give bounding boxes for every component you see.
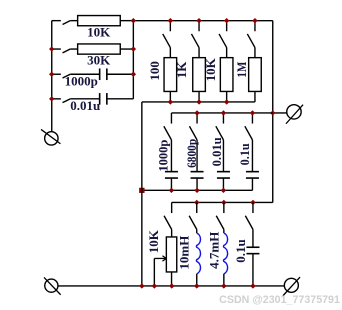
terminal T4 (lower right) [284,278,298,292]
svg-text:1M: 1M [234,62,249,78]
svg-text:4.7mH: 4.7mH [207,232,222,269]
resistor 10K (vertical) [226,48,228,58]
inductor 4.7mH [223,229,225,233]
junction dot top bus col4 [252,18,257,23]
capacitor 1000p (vertical) [170,140,172,172]
junction dot top bus col1 [168,18,173,23]
junction dot cap top bus col2 [194,110,199,115]
svg-text:10K: 10K [203,57,218,81]
wire: bottom bus [58,285,284,287]
svg-text:1000p: 1000p [65,73,98,88]
switch S14 (10mH branch) [196,202,198,213]
svg-text:0.1u: 0.1u [233,239,248,262]
junction dot top bus col3 [224,18,229,23]
inductor 10mH [196,229,198,233]
switch S4 (0.01u branch) [52,98,61,100]
junction dots on right rail [131,46,136,51]
terminal T1 (upper left) [45,132,58,145]
resistor 30K (horizontal) [70,48,77,50]
resistor 10K (horizontal) [70,20,77,22]
junction dot right bus / terminal wire [270,110,275,115]
svg-text:100: 100 [147,61,162,80]
junction square on mid-left rail [139,188,144,193]
switch S8 (1M branch) [254,21,256,32]
wire: left rail of series block [51,21,53,132]
switch S3 (1000p branch) [52,73,61,75]
wire: capacitor bank bottom bus [142,189,253,191]
junction dots bottom bus [139,283,144,288]
potentiometer 10K [171,229,173,237]
resistor 100 (vertical) [169,48,171,58]
switch S9 (1000p branch) [170,113,172,124]
switch S6 (1K branch) [198,21,200,32]
switch S7 (10K branch) [226,21,228,32]
switch S12 (0.1u branch) [251,113,253,124]
svg-text:0.1u: 0.1u [237,143,252,165]
terminal T2 (lower left) [45,279,58,292]
terminal T3 (middle right) [287,105,301,119]
junction dot cap top bus col4 [250,110,255,115]
wire: right vertical bus [272,21,274,203]
svg-text:10K: 10K [87,24,111,39]
svg-text:0.01u: 0.01u [209,137,224,166]
wire: LC bank top bus [172,201,273,203]
svg-text:1000p: 1000p [156,140,171,172]
switch S10 (6800p branch) [196,113,198,124]
svg-text:6800p: 6800p [184,139,199,168]
svg-text:CSDN @2301_77375791: CSDN @2301_77375791 [219,294,340,306]
svg-text:10K: 10K [146,229,161,253]
resistor 1K (vertical) [198,48,200,58]
switch S11 (0.01u branch) [222,113,224,124]
svg-text:10mH: 10mH [176,236,191,270]
switch S5 (100 branch) [169,21,171,32]
svg-text:1K: 1K [174,61,189,78]
switch S15 (4.7mH branch) [223,202,225,213]
junction dot top bus col2 [196,18,201,23]
capacitor 0.1u (bottom bank) [252,229,254,247]
junction dot top bus / right rail [131,18,136,23]
switch S1 (10K branch) [52,20,61,22]
capacitor 0.1u (vertical) [251,140,253,172]
potentiometer wiper arrow [154,257,166,259]
capacitor 1000p (horizontal) [70,73,99,75]
junction dots resistor bottom bus [168,99,173,104]
switch S2 (30K branch) [52,48,61,50]
capacitor 0.01u (horizontal) [70,98,99,100]
wire: capacitor bank top bus [171,112,272,114]
switch S16 (0.1u branch) [252,202,254,213]
switch S13 (10K pot branch) [171,202,173,213]
junction dots LC top bus [194,200,199,205]
junction dot cap top bus col3 [221,110,226,115]
wire: to right terminal [273,112,287,114]
svg-text:0.01u: 0.01u [70,98,100,113]
junction dots on left rail [49,46,54,51]
svg-text:30K: 30K [87,53,111,68]
capacitor 0.01u (vertical) [222,140,224,172]
capacitor 6800p (vertical) [196,140,198,172]
wire: mid-left vertical rail [141,102,143,286]
wire: top bus [133,20,272,22]
junction dots cap bottom bus [169,188,174,193]
wire: right rail of series block [132,21,134,99]
wire: resistor bank bottom bus [142,101,255,103]
resistor 1M (vertical) [254,48,256,58]
